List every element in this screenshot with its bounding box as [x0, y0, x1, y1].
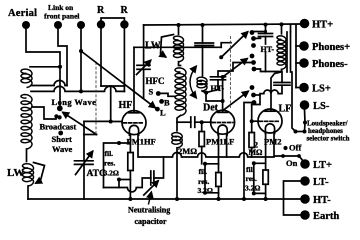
svg-text:LW: LW — [145, 41, 161, 52]
wire tap1 with hop over aerial wire — [31, 81, 67, 86]
resistor Rfil3 LF filament — [263, 132, 268, 199]
capacitor ATC aerial trimmer — [75, 152, 94, 175]
wire Rfil1 bypass — [104, 141, 131, 188]
wire T1 secondary top to HT+ — [290, 24, 292, 32]
wire LW coil tap arm — [34, 163, 45, 184]
switch band contact S — [149, 87, 161, 97]
switch gang S2 arm — [223, 59, 247, 77]
wire grid bar — [101, 85, 124, 87]
terminal HT- — [300, 194, 331, 206]
node grid leak top — [200, 120, 204, 124]
switch gang S1 arm — [221, 32, 247, 57]
wire coil to LW coil — [26, 149, 28, 162]
node C2-L5 junction — [204, 91, 208, 95]
terminal Link right — [77, 21, 85, 29]
node C3 rail junction — [264, 23, 268, 27]
wire coil top to aerial node — [30, 66, 60, 68]
node S1 pivot — [219, 55, 223, 59]
svg-text:fil.: fil. — [105, 149, 114, 158]
terminal Earth — [300, 210, 339, 222]
wire wave arm pivot to ATC — [84, 134, 97, 136]
svg-text:R: R — [97, 5, 105, 16]
wire S3 bottom contact down to bus — [244, 103, 254, 200]
wire T1 primary bottom — [281, 69, 283, 71]
node band arm pivot — [79, 49, 83, 53]
wire L5 bottom to Det anode — [202, 91, 223, 101]
wire S1 top contact to C3 — [252, 31, 266, 33]
switch band contact B — [159, 98, 170, 108]
terminal Phones- — [299, 58, 348, 70]
label Link on front panel — [44, 3, 80, 21]
wire Det right filament leg — [226, 134, 228, 157]
coupling variation arrow arc — [190, 67, 196, 98]
terminal LS- — [300, 100, 330, 112]
terminal Link left — [54, 21, 62, 29]
wire C3 top plate to rail — [265, 25, 267, 34]
linkage gang switch (dashed) — [229, 36, 231, 108]
terminal R1 — [97, 5, 105, 29]
wire S1 mid contact stub — [254, 37, 261, 39]
wire HF anode line — [134, 46, 221, 48]
wire rail down to HFC — [143, 25, 145, 65]
wire tap2 with hops to R2 — [31, 86, 124, 91]
terminal HT+ — [300, 19, 333, 31]
terminal LT+ — [300, 159, 332, 171]
capacitor C1 anode coupling — [195, 25, 214, 47]
node T1 rail junction — [280, 22, 284, 26]
node L5 Det anode junction — [221, 99, 225, 103]
svg-text:PM2: PM2 — [264, 137, 281, 147]
wire S1 pivot jog — [221, 43, 231, 48]
wire Rfil2 bypass — [203, 162, 219, 195]
svg-text:HT-: HT- — [313, 195, 331, 206]
svg-text:Broadcast: Broadcast — [40, 122, 77, 132]
switch wave-change contact Broadcast — [58, 131, 63, 136]
wire LF right filament leg to on-off switch — [274, 132, 283, 156]
wire Det anode vertical to gang pivot — [222, 77, 224, 111]
wire S contact to grid coil — [159, 93, 176, 96]
svg-text:LT-: LT- — [313, 177, 329, 188]
switch gang S1 contacts — [250, 30, 256, 48]
wire L4b bottom to bus — [176, 148, 178, 199]
resistor R2M Det grid leak — [199, 122, 204, 164]
node Rfil3 bus — [264, 197, 268, 201]
label fil res 3.2 HF — [104, 149, 119, 178]
valve V3 LF — [258, 109, 282, 134]
wire Phones+ stub — [296, 45, 301, 47]
wire Link-right down — [80, 29, 82, 91]
switch gang S2 contacts — [250, 54, 257, 72]
terminal R2 — [120, 5, 128, 29]
switch gang S3 arm — [224, 92, 249, 111]
wire LT- HT- Earth bracket — [284, 181, 306, 215]
node S3 bus junction — [242, 197, 246, 201]
wire HF grid vertical — [111, 86, 122, 122]
svg-text:R: R — [121, 5, 129, 16]
node S2 pivot — [221, 75, 225, 79]
capacitor C5 Det grid condenser — [191, 117, 195, 127]
node LS- selector contact — [303, 121, 307, 125]
terminal LS+ — [299, 83, 331, 95]
switch gang S3 contacts — [250, 85, 257, 105]
svg-text:MΩ: MΩ — [249, 148, 264, 157]
wire R link bar — [101, 18, 124, 23]
transformer T1 primary winding — [277, 36, 286, 69]
wire grid to tuning branch — [84, 120, 111, 122]
svg-text:HF: HF — [119, 100, 133, 111]
svg-text:LW: LW — [7, 167, 24, 179]
svg-text:Phones-: Phones- — [312, 59, 348, 70]
switch wave-change middle contacts — [54, 114, 58, 118]
label 2 MOhm LF — [249, 141, 264, 157]
capacitor C3 top HT- blocking — [259, 34, 273, 37]
capacitor C2 to HT- — [211, 77, 226, 80]
wire C2 bottom lead — [207, 80, 219, 93]
wire C3 bottom lead down — [265, 37, 267, 72]
svg-text:Neutralising: Neutralising — [128, 206, 170, 215]
valve V1 HF — [122, 111, 146, 136]
svg-text:fil.: fil. — [246, 165, 255, 174]
resistor R2M LF grid leak — [249, 105, 254, 158]
linkage wave switch to band switch (dashed) — [95, 62, 97, 134]
svg-text:B: B — [164, 98, 170, 108]
wire LF grid stub — [252, 120, 259, 122]
coil L5 coupling winding — [197, 77, 207, 91]
node tap2 Link-right junction — [79, 89, 83, 93]
svg-text:front panel: front panel — [44, 12, 80, 21]
svg-text:res.: res. — [104, 159, 115, 168]
wire LF anode to transformer — [271, 72, 281, 110]
svg-text:HT+: HT+ — [312, 20, 333, 31]
transformer T1 secondary lines — [287, 32, 291, 72]
svg-text:fil.: fil. — [199, 167, 208, 176]
wire S3 mid contact to grid feed — [254, 94, 261, 96]
svg-text:capacitor: capacitor — [135, 217, 167, 226]
wire Rfil3 bypass — [252, 161, 266, 195]
svg-text:Phones+: Phones+ — [312, 42, 350, 53]
svg-text:3.2Ω: 3.2Ω — [104, 169, 119, 178]
node C1 rail junction — [201, 23, 205, 27]
wire filament rail LT+ with hops — [138, 134, 274, 157]
wire R2 down to tap2 wire — [123, 25, 125, 92]
wire S2 bottom contact to transformer node — [254, 69, 282, 72]
capacitor HFC variable — [137, 61, 151, 75]
wire T1 bottom node to C4 — [281, 72, 283, 83]
wire HT+ rail top — [144, 24, 300, 25]
wire C2 top lead to gang contact — [218, 63, 252, 77]
svg-text:res.: res. — [246, 174, 257, 183]
label Neutralising capacitor — [128, 193, 170, 227]
svg-text:Loudspeaker/: Loudspeaker/ — [307, 121, 348, 128]
svg-text:Long Wave: Long Wave — [52, 97, 97, 107]
svg-text:3.2Ω: 3.2Ω — [198, 186, 213, 195]
capacitor CN neutralising — [144, 171, 158, 195]
coil L4b lower winding — [172, 133, 182, 148]
wire L5 top lead — [202, 47, 204, 75]
wire L3 bottom to grid coil — [179, 62, 181, 66]
wire CN right lead to rail — [154, 157, 164, 178]
svg-text:PM1LF: PM1LF — [206, 137, 234, 147]
coil L1b aerial coil lower section — [21, 95, 32, 150]
node aerial-coil junction — [58, 65, 62, 69]
switch band selector arm (pivot on link-right wire) — [81, 51, 155, 108]
svg-text:HT-: HT- — [261, 45, 275, 54]
svg-text:Aerial: Aerial — [8, 8, 37, 19]
wire T1 secondary to selector — [292, 72, 296, 132]
terminal Aerial — [8, 8, 37, 29]
svg-text:Det: Det — [203, 103, 219, 114]
wire L4 bottom down — [177, 115, 181, 130]
label Short Wave — [52, 134, 73, 154]
svg-text:selector switch: selector switch — [307, 136, 350, 143]
wire ATC to bus — [83, 164, 85, 199]
switch wave-change contact Long Wave — [57, 105, 63, 111]
switch speaker selector arm — [294, 130, 307, 134]
svg-text:Short: Short — [52, 134, 72, 144]
wire L3 top lead — [178, 25, 180, 34]
svg-text:3.2Ω: 3.2Ω — [245, 184, 260, 193]
svg-text:LT+: LT+ — [313, 160, 332, 171]
wire CN left lead with hop to filament column — [104, 178, 151, 192]
svg-text:headphones: headphones — [308, 128, 343, 135]
label Loudspeaker headphones selector switch — [307, 121, 350, 143]
wire R1 down to grid bar — [100, 25, 102, 87]
terminal LT- — [300, 176, 329, 188]
wire L3 variable tap arm — [161, 35, 174, 57]
wire Link-left to coil tap1 — [58, 29, 67, 86]
node L3 top on rail — [177, 23, 181, 27]
node HF grid junction — [109, 120, 113, 124]
wire ATC to grid line — [83, 121, 85, 160]
switch wave-change arm — [63, 113, 97, 135]
node LF grid junction — [250, 119, 254, 123]
wire grid cap to Det grid — [195, 121, 212, 123]
wire T1 primary top to rail — [281, 24, 283, 33]
svg-text:Wave: Wave — [52, 144, 73, 154]
node Rfil2 bus — [217, 197, 221, 201]
coil L3 anode LW loading coil — [174, 36, 184, 62]
svg-text:On: On — [286, 158, 298, 168]
wire LS+ stub — [296, 87, 301, 89]
svg-text:res.: res. — [198, 177, 209, 186]
node L4b bus junction — [175, 197, 179, 201]
resistor Rfil2 Det filament — [216, 134, 221, 199]
coil L2 LW aerial loading coil — [23, 164, 34, 186]
label fil res 3.2 LF — [245, 165, 260, 193]
svg-text:LS-: LS- — [313, 101, 330, 112]
wire coil to grid cap — [177, 121, 191, 123]
node Rfil1 bus — [128, 197, 132, 201]
capacitor C4 coupling to LF grid — [274, 83, 290, 86]
wire aerial node down to Long Wave contact — [59, 67, 61, 106]
svg-text:LF: LF — [279, 104, 292, 115]
wire Aerial to coil-top node — [26, 29, 60, 64]
svg-text:Earth: Earth — [313, 211, 339, 222]
wire Phones- stub — [296, 62, 301, 64]
resistor Rfil1 HF filament — [128, 134, 133, 199]
terminal Phones+ — [299, 41, 350, 53]
svg-text:LS+: LS+ — [312, 84, 331, 95]
coil L4 tuned grid coil — [175, 68, 186, 116]
valve V2 Det — [211, 110, 235, 135]
wire bottom bus LT- rail — [28, 198, 301, 200]
svg-text:S: S — [149, 87, 154, 97]
wire C4 to LF grid feed with hops — [252, 85, 282, 104]
svg-text:HFC: HFC — [146, 76, 165, 86]
node C3 contact junction — [264, 30, 267, 33]
wire Phones link — [295, 24, 297, 87]
wire HF anode vertical — [133, 47, 135, 111]
svg-text:L: L — [160, 108, 166, 118]
wire LW coil bottom to bus — [27, 186, 29, 199]
svg-text:Off: Off — [289, 143, 301, 153]
coil L1a aerial coil upper section — [21, 69, 32, 87]
wire HFC to band switch arm — [143, 69, 145, 98]
label fil res 3.2 Det — [198, 167, 213, 195]
switch band contact L — [155, 107, 166, 118]
wire LS- down to selector — [304, 110, 307, 132]
switch on-off — [281, 146, 304, 162]
